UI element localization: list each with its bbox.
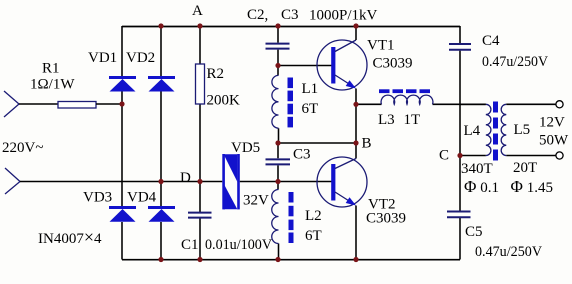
node C2/L1 bbox=[275, 63, 280, 68]
svg-text:B: B bbox=[362, 136, 372, 152]
svg-text:R2: R2 bbox=[207, 66, 225, 82]
diode VD1 bbox=[109, 76, 136, 92]
resistor R1 bbox=[58, 102, 96, 109]
transformer secondary L5 bbox=[501, 104, 506, 155]
terminal output bottom bbox=[556, 152, 563, 159]
wire column C2/L1/C3/L2 bbox=[277, 26, 280, 260]
wire node to VT2 base bbox=[278, 181, 332, 183]
wire L3 row bbox=[356, 103, 486, 105]
node A bbox=[197, 23, 202, 28]
node bottom rail x356 bbox=[353, 257, 358, 262]
transistor VT2 bbox=[317, 157, 367, 207]
wire VD5 to node bbox=[240, 181, 278, 183]
capacitor C2 bbox=[266, 44, 290, 49]
svg-text:50W: 50W bbox=[539, 133, 569, 149]
svg-text:A: A bbox=[192, 3, 203, 19]
wire transformer bottom left (node C) bbox=[460, 155, 486, 157]
node bottom rail x200 bbox=[197, 257, 202, 262]
svg-text:C3039: C3039 bbox=[366, 211, 406, 227]
core of L2 bbox=[289, 192, 294, 243]
node top rail x356 bbox=[353, 23, 358, 28]
core of L3 bbox=[379, 89, 430, 93]
wire column VD2/VD4 bbox=[160, 26, 162, 260]
svg-text:IN4007×4: IN4007×4 bbox=[38, 227, 102, 247]
svg-text:6T: 6T bbox=[305, 228, 322, 244]
resistor R2 bbox=[196, 64, 205, 104]
capacitor C3 mid bbox=[266, 159, 291, 164]
terminal input bottom bbox=[5, 168, 20, 194]
capacitor C4 bbox=[449, 44, 471, 50]
node VT1 emitter bbox=[353, 102, 358, 107]
diode VD5 (bidirectional zener) bbox=[222, 154, 240, 209]
transformer core bbox=[493, 102, 498, 161]
node B bbox=[353, 140, 358, 145]
wire VT1 base bbox=[278, 65, 332, 67]
wire transformer top left bbox=[460, 103, 486, 105]
svg-text:VD4: VD4 bbox=[127, 190, 157, 206]
transformer primary L4 bbox=[486, 104, 491, 155]
wire left column VD1/VD3 bbox=[121, 26, 123, 260]
diode VD4 bbox=[148, 206, 175, 222]
wire node L1C3 to B bbox=[278, 142, 356, 144]
svg-text:12V: 12V bbox=[539, 115, 565, 131]
inductor L3 bbox=[381, 95, 433, 104]
svg-text:0.47u/250V: 0.47u/250V bbox=[482, 54, 548, 70]
svg-text:VD2: VD2 bbox=[126, 50, 155, 66]
svg-text:L1: L1 bbox=[302, 81, 319, 97]
svg-text:20T: 20T bbox=[513, 160, 537, 176]
svg-text:,: , bbox=[265, 8, 269, 24]
node D bbox=[197, 179, 202, 184]
wire top rail A bbox=[122, 26, 460, 28]
wire VT1 emitter to VT2 collector bbox=[355, 89, 357, 159]
svg-text:Φ 1.45: Φ 1.45 bbox=[511, 177, 553, 196]
wire right rail C4/C5 bbox=[459, 26, 461, 260]
svg-text:L3: L3 bbox=[378, 112, 395, 128]
node bridge left bbox=[119, 101, 124, 106]
wire bottom rail bbox=[122, 259, 460, 261]
inductor L1 bbox=[272, 75, 279, 128]
terminal input top bbox=[4, 91, 19, 117]
svg-text:L5: L5 bbox=[514, 122, 531, 138]
wire VT2 emitter to bottom rail bbox=[355, 206, 357, 260]
svg-text:220V~: 220V~ bbox=[2, 140, 43, 156]
node top rail x278 bbox=[275, 23, 280, 28]
svg-text:C3039: C3039 bbox=[373, 56, 413, 72]
svg-text:0.47u/250V: 0.47u/250V bbox=[475, 244, 542, 260]
diode VD2 bbox=[148, 76, 175, 92]
core of L1 bbox=[288, 78, 294, 128]
svg-text:200K: 200K bbox=[207, 93, 241, 109]
node bottom rail x278 bbox=[275, 257, 280, 262]
svg-text:R1: R1 bbox=[42, 61, 60, 77]
svg-text:C: C bbox=[439, 148, 449, 164]
node dots bbox=[119, 23, 462, 262]
node L1/C3 bbox=[275, 140, 280, 145]
node bridge right bbox=[158, 179, 163, 184]
svg-text:340T: 340T bbox=[461, 161, 493, 177]
svg-text:L4: L4 bbox=[464, 123, 481, 139]
transistor VT1 bbox=[317, 40, 367, 90]
svg-text:C3: C3 bbox=[281, 7, 299, 23]
inductor L2 bbox=[272, 190, 279, 244]
capacitor C1 bbox=[188, 213, 212, 218]
wire VT1 collector to rail bbox=[355, 26, 357, 40]
wire input top to R1 bbox=[19, 103, 58, 105]
svg-text:VT1: VT1 bbox=[367, 38, 395, 54]
wire R1 to bridge node bbox=[96, 103, 122, 105]
svg-text:D: D bbox=[180, 170, 191, 186]
svg-text:VD1: VD1 bbox=[88, 50, 117, 66]
svg-text:C5: C5 bbox=[465, 224, 483, 240]
wire L5 top to output bbox=[506, 103, 556, 105]
node bottom rail x161 bbox=[158, 257, 163, 262]
node VD5/L2 bbox=[275, 179, 280, 184]
svg-text:6T: 6T bbox=[302, 101, 319, 117]
svg-text:1T: 1T bbox=[404, 112, 421, 128]
wire input bottom row to VD5 bbox=[20, 181, 222, 183]
terminal output top bbox=[556, 101, 563, 108]
capacitor C5 bbox=[447, 212, 471, 218]
svg-text:0.01u/100V: 0.01u/100V bbox=[205, 237, 272, 253]
svg-text:L2: L2 bbox=[305, 208, 322, 224]
svg-text:C2: C2 bbox=[247, 7, 265, 23]
svg-text:VD5: VD5 bbox=[231, 140, 260, 156]
svg-text:Φ 0.1: Φ 0.1 bbox=[464, 177, 499, 196]
node top rail x161 bbox=[158, 23, 163, 28]
svg-text:C1: C1 bbox=[181, 237, 199, 253]
node C bbox=[457, 153, 462, 158]
wire L5 bottom to output bbox=[506, 155, 556, 157]
svg-text:1000P/1kV: 1000P/1kV bbox=[309, 8, 378, 24]
svg-text:32V: 32V bbox=[243, 193, 269, 209]
svg-text:VD3: VD3 bbox=[83, 190, 112, 206]
svg-text:1Ω/1W: 1Ω/1W bbox=[30, 77, 75, 93]
wire column R2/C1 bbox=[199, 26, 201, 260]
diode VD3 bbox=[109, 206, 136, 222]
svg-text:C4: C4 bbox=[482, 33, 500, 49]
svg-text:C3: C3 bbox=[293, 147, 311, 163]
